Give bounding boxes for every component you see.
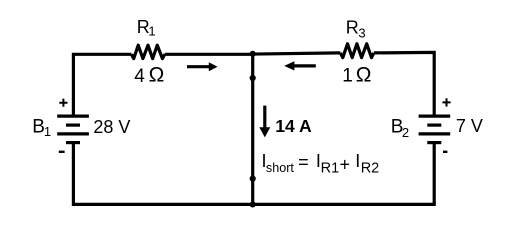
plus sign B1 xyxy=(59,99,67,107)
battery B1 long plate (top, +) xyxy=(57,114,89,117)
svg-text:=: = xyxy=(298,152,309,172)
svg-text:I: I xyxy=(355,151,360,171)
battery B1 short plate (bottom, -) xyxy=(66,141,80,144)
node C (lower short terminal dot) xyxy=(250,176,256,182)
battery B1 long plate 2 xyxy=(57,132,89,135)
wire top right (center node to R3) xyxy=(253,53,341,54)
svg-text:R1: R1 xyxy=(321,160,340,176)
current arrow down 14 A xyxy=(263,106,266,129)
svg-text:+: + xyxy=(340,155,351,175)
svg-text:1: 1 xyxy=(342,65,353,86)
current arrow left (I_R2) xyxy=(294,64,316,67)
battery B2 short plate (bottom, -) xyxy=(427,141,441,144)
node B (upper short terminal dot) xyxy=(250,75,256,81)
svg-text:Ω: Ω xyxy=(356,63,372,86)
minus sign B1 xyxy=(59,151,65,153)
svg-text:28 V: 28 V xyxy=(93,117,130,137)
wire center shorting jumper xyxy=(251,54,254,205)
svg-text:Ω: Ω xyxy=(149,64,165,87)
svg-text:14 A: 14 A xyxy=(275,116,312,136)
battery B2 long plate (top, +) xyxy=(419,114,451,117)
svg-text:7 V: 7 V xyxy=(456,116,483,136)
svg-text:3: 3 xyxy=(358,26,365,41)
svg-text:1: 1 xyxy=(44,124,51,139)
current arrow right (I_R1) xyxy=(187,65,209,68)
resistor R1 xyxy=(131,45,164,58)
svg-text:1: 1 xyxy=(148,23,155,38)
wire top middle (R1 to center node) xyxy=(165,53,253,56)
svg-text:4: 4 xyxy=(134,66,145,87)
wire top right corner to battery B2 xyxy=(374,52,434,116)
plus sign B2 xyxy=(442,98,450,106)
minus sign B2 xyxy=(443,151,447,153)
node A (top junction dot) xyxy=(250,51,256,57)
battery B1 short plate 1 xyxy=(66,123,80,126)
resistor R3 xyxy=(340,44,374,58)
svg-text:short: short xyxy=(266,161,294,175)
svg-text:R: R xyxy=(346,17,359,37)
svg-text:R2: R2 xyxy=(361,160,380,176)
wire top left segment xyxy=(73,54,131,116)
battery B2 long plate 2 xyxy=(419,132,451,135)
node D (bottom junction dot) xyxy=(250,201,256,207)
wire left rail and bottom rail xyxy=(73,143,434,205)
svg-text:2: 2 xyxy=(402,125,409,140)
battery B2 short plate 1 xyxy=(427,123,441,126)
